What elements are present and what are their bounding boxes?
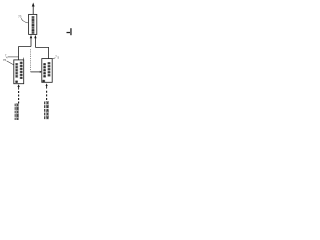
svg-text:76: 76 (3, 58, 7, 62)
svg-text:73: 73 (18, 14, 22, 18)
